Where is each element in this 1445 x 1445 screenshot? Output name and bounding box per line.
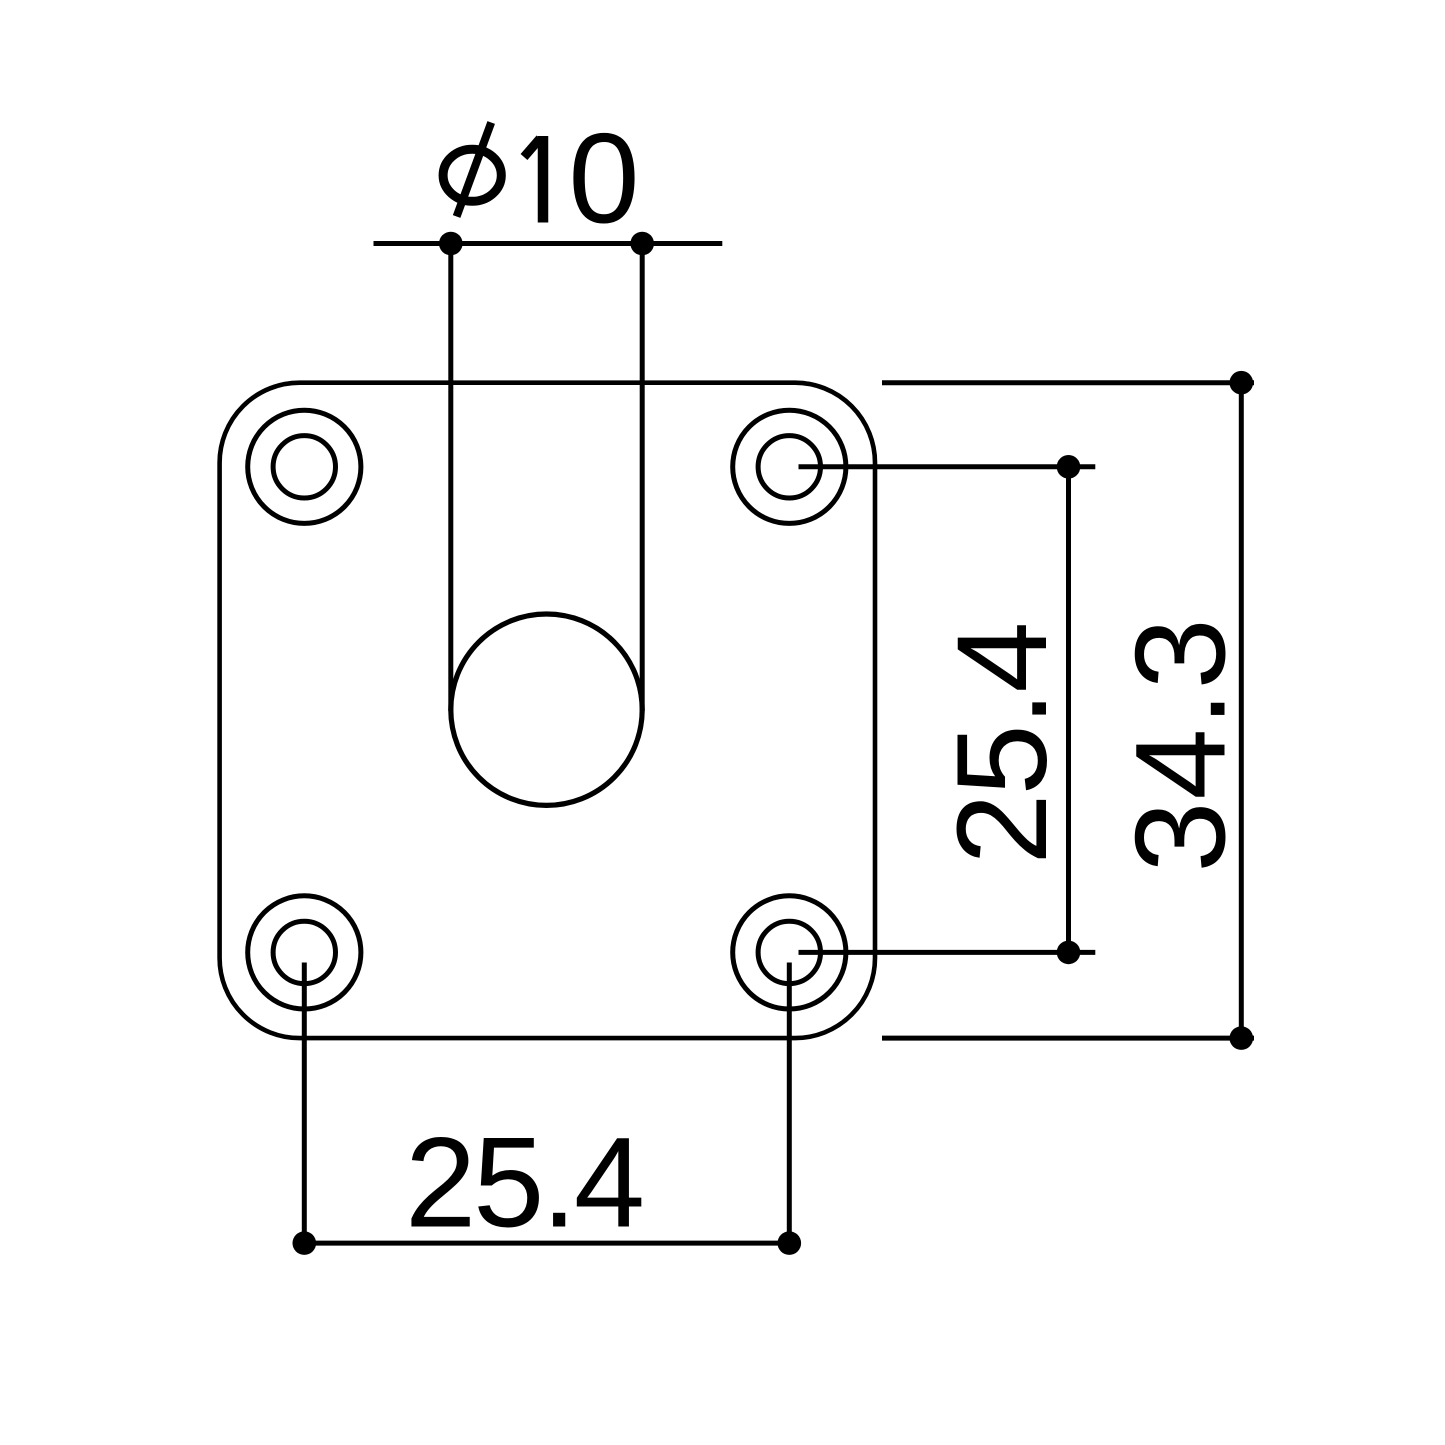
dimension text 1 [524, 136, 543, 223]
screw hole bottom-left inner [273, 921, 335, 983]
dimension dot 25.4 right bottom [1057, 941, 1081, 965]
svg-text:25.4: 25.4 [405, 1112, 642, 1255]
dimension dot 34.3 top [1230, 371, 1254, 395]
extension line from bottom-right hole center down [787, 963, 792, 1244]
extension line plate bottom edge right [882, 1036, 1254, 1041]
svg-text:25.4: 25.4 [931, 623, 1074, 864]
dimension dot 25.4 bottom right [778, 1231, 802, 1255]
dimension line 25.4 bottom horizontal [304, 1241, 789, 1246]
svg-text:0: 0 [568, 108, 639, 251]
dimension dot 25.4 bottom left [293, 1231, 317, 1255]
svg-text:34.3: 34.3 [1109, 616, 1252, 872]
screw hole top-right outer [733, 410, 846, 523]
screw hole bottom-right outer [733, 896, 846, 1009]
dimension line 34.3 vertical [1239, 383, 1244, 1038]
extension line right tangent of jack hole [640, 244, 645, 712]
screw hole top-left outer [248, 410, 361, 523]
extension line left tangent of jack hole [448, 244, 453, 712]
screw hole top-left inner [273, 436, 335, 498]
extension line from top-right hole center [799, 464, 1096, 469]
screw hole bottom-right inner [758, 921, 820, 983]
dimension line phi10 [374, 241, 723, 246]
screw hole bottom-left outer [248, 896, 361, 1009]
diameter symbol phi [443, 123, 501, 217]
dimension dot phi10 left [439, 232, 463, 256]
extension line from bottom-right hole center [799, 950, 1096, 955]
dimension line 25.4 right vertical [1066, 467, 1071, 953]
dimension dot 25.4 right top [1057, 455, 1081, 479]
extension line from bottom-left hole center down [302, 963, 307, 1244]
plate outline (jack plate body) [220, 383, 875, 1038]
dimension dot 34.3 bottom [1230, 1026, 1254, 1050]
dimension dot phi10 right [630, 232, 654, 256]
extension line plate top edge right [882, 380, 1254, 385]
screw hole top-right inner [758, 436, 820, 498]
center jack hole circle [451, 614, 642, 805]
